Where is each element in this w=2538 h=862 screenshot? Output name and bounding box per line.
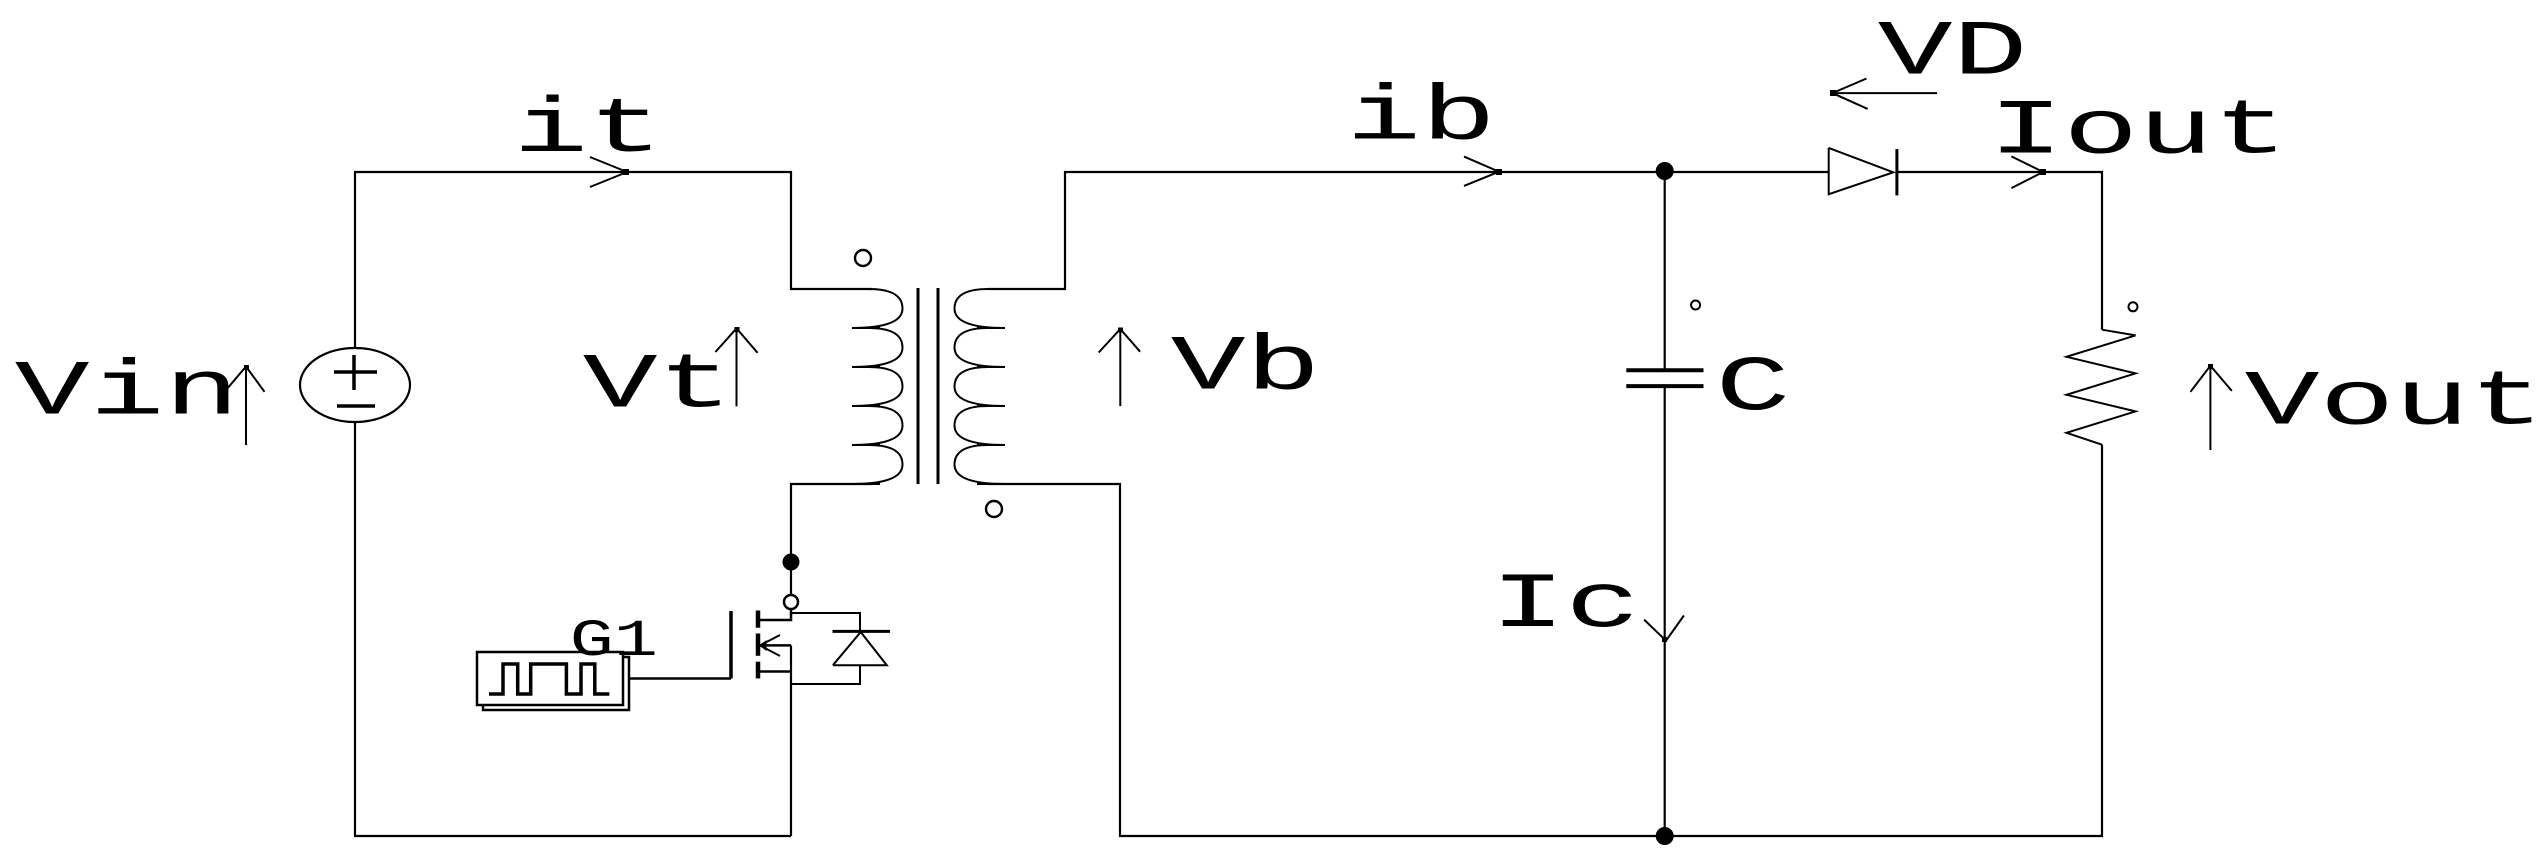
arrow Vt up <box>715 327 757 406</box>
arrow Vout up <box>2191 364 2232 450</box>
arrow VD left <box>1830 79 1937 109</box>
small circle (capacitor pin marker) <box>1691 301 1700 310</box>
wire: diode cathode to load top <box>1897 172 2102 330</box>
transformer primary phase dot <box>855 250 871 266</box>
wire: bottom rail right to secondary bottom <box>988 484 1665 836</box>
wire: bottom rail left loop <box>355 422 791 836</box>
diode D1 <box>1829 148 1897 196</box>
MOSFET drain pin circle <box>784 595 798 609</box>
resistor R load <box>2067 330 2136 445</box>
voltage source Vin V1 <box>300 348 410 422</box>
junction node dot (primary/drain) <box>783 554 800 571</box>
svg-text:Vt: Vt <box>583 343 733 430</box>
arrow ib on wire <box>1464 157 1502 186</box>
svg-text:ib: ib <box>1346 75 1496 162</box>
MOSFET Q1 <box>629 609 791 679</box>
svg-text:Vout: Vout <box>2245 360 2538 447</box>
svg-text:Vb: Vb <box>1171 325 1321 412</box>
arrow Vin up <box>225 365 265 445</box>
wire: resistor bottom to bottom rail <box>1665 445 2102 836</box>
wire: Vin positive to transformer primary top <box>355 172 872 348</box>
svg-text:Vin: Vin <box>15 350 240 437</box>
svg-text:G1: G1 <box>570 613 658 671</box>
pulse generator G1 <box>477 652 629 710</box>
svg-text:C: C <box>1716 346 1791 433</box>
junction node dot (bottom rail) <box>1656 827 1674 845</box>
arrow Vb up <box>1099 328 1140 407</box>
transformer secondary phase dot <box>986 501 1002 517</box>
svg-text:Ic: Ic <box>1491 563 1641 650</box>
svg-text:it: it <box>513 88 663 175</box>
body diode of Q1 <box>791 613 890 684</box>
transformer T1 secondary winding <box>955 289 1006 484</box>
arrow Iout on wire <box>2011 156 2046 188</box>
transformer T1 primary winding <box>852 289 903 484</box>
arrow it on top wire <box>590 157 629 187</box>
svg-text:VD: VD <box>1878 10 2028 97</box>
arrow Ic down on capacitor wire <box>1644 616 1684 643</box>
capacitor C plates <box>1626 370 1703 386</box>
junction node dot (output node top) <box>1656 162 1674 180</box>
wire: MOSFET source down to bottom rail <box>790 645 792 836</box>
wire: output node down to capacitor <box>1664 171 1666 370</box>
wire: primary bottom to MOSFET drain <box>791 484 872 595</box>
wire: secondary top to output node <box>988 172 1665 289</box>
transformer core <box>918 288 938 484</box>
wire: capacitor bottom to bottom rail <box>1664 386 1666 836</box>
small circle (resistor pin 1 marker) <box>2129 302 2138 311</box>
wire: node to diode anode <box>1665 171 1829 173</box>
svg-text:Iout: Iout <box>1989 89 2289 176</box>
